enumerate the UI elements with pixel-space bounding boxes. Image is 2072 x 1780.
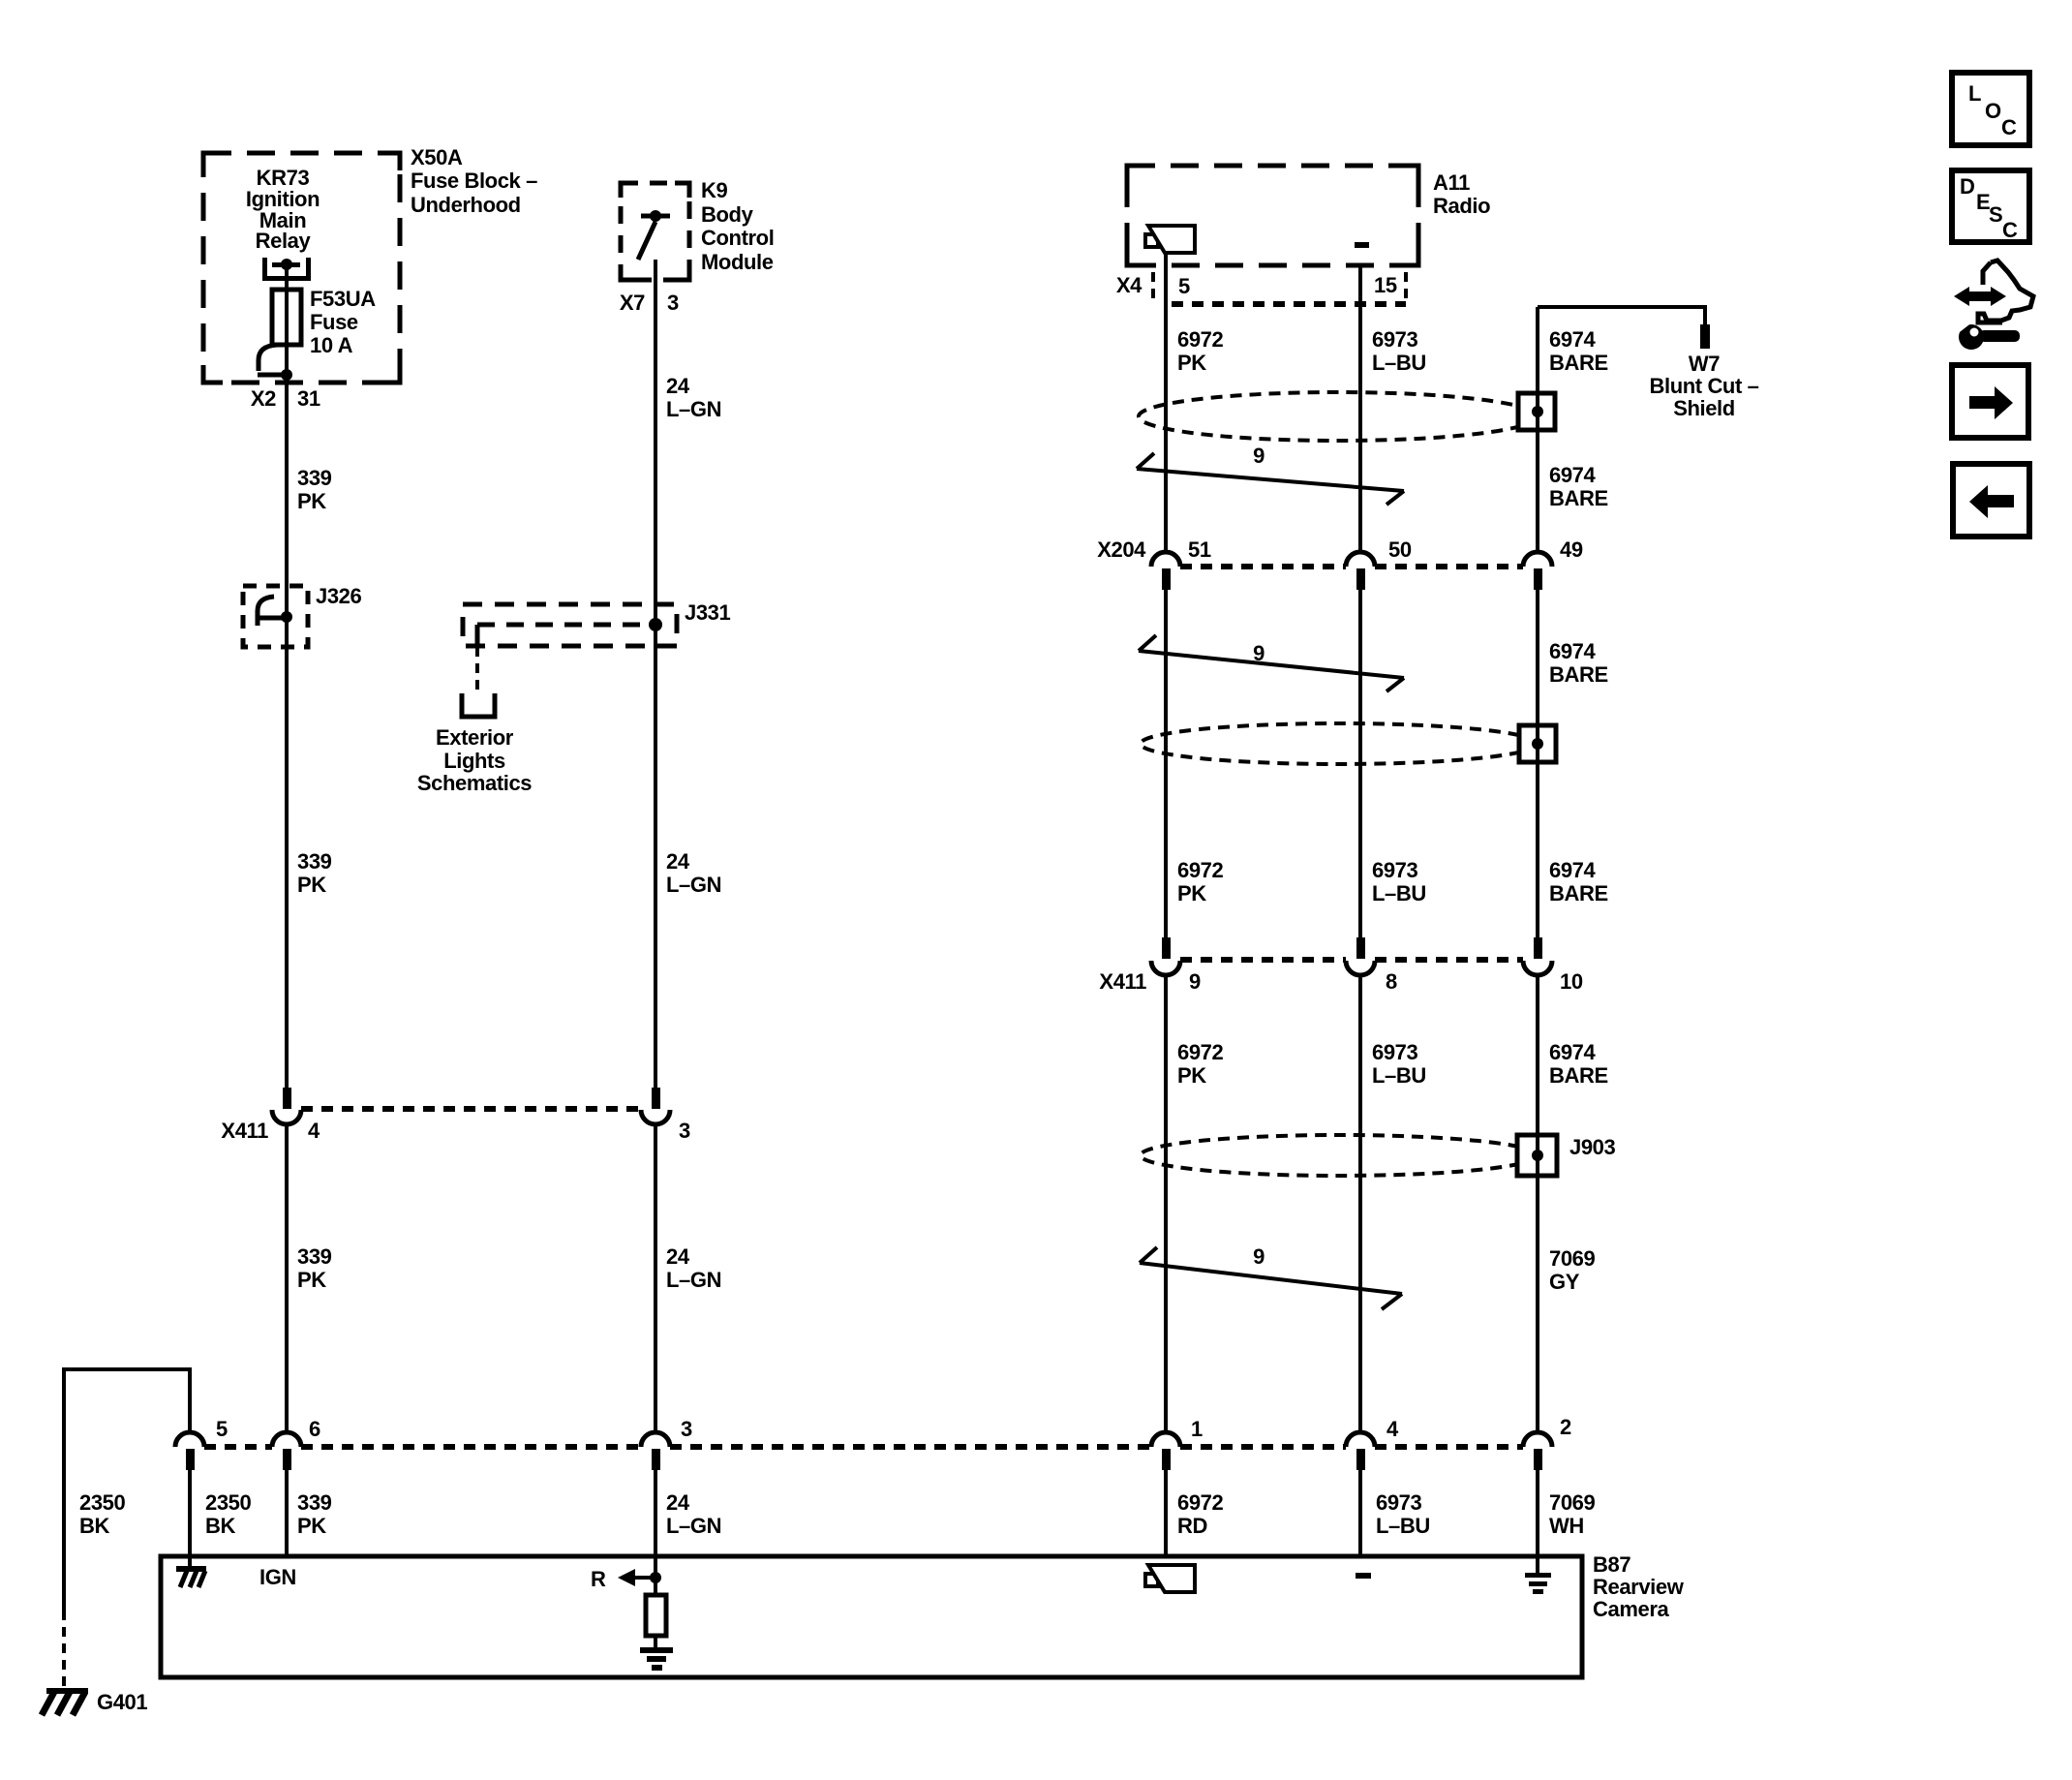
connector X411 pin 9 arc: [1151, 961, 1180, 975]
wire 6974 shield segment 2: [1536, 590, 1539, 937]
svg-text:PK: PK: [297, 489, 326, 513]
svg-text:X411: X411: [221, 1119, 268, 1143]
connector X4 row dashed line: [1153, 272, 1406, 304]
svg-text:L–GN: L–GN: [666, 1514, 721, 1538]
svg-text:5: 5: [216, 1417, 228, 1441]
svg-text:Fuse: Fuse: [310, 310, 358, 334]
label 339 PK bottom: [297, 1490, 332, 1538]
splice J331 inner box: [477, 625, 649, 645]
svg-text:6: 6: [309, 1417, 320, 1441]
shield ellipse 1: [1139, 392, 1538, 441]
svg-text:51: 51: [1188, 537, 1211, 562]
svg-text:A11: A11: [1433, 170, 1470, 195]
svg-text:339: 339: [297, 1490, 332, 1515]
connector bottom pin 5 arc: [175, 1432, 204, 1447]
svg-text:24: 24: [666, 1244, 690, 1269]
label 24 L-GN bottom: [666, 1490, 721, 1538]
wire 339 PK segment upper: [285, 375, 289, 1088]
fuse block X50A box: [203, 153, 400, 383]
icon arrow right box: [1952, 365, 2028, 438]
label 6973 L-BU bottom: [1376, 1490, 1430, 1538]
wire 6973 segment 3: [1358, 974, 1362, 1432]
svg-text:BARE: BARE: [1549, 1063, 1608, 1088]
pin X4 5 15 labels: [1116, 273, 1397, 298]
svg-text:Body: Body: [701, 202, 754, 227]
label 6973 L-BU first: [1372, 327, 1426, 375]
svg-text:B87: B87: [1593, 1552, 1630, 1577]
svg-text:BARE: BARE: [1549, 662, 1608, 687]
connector X411 pin 4 tick: [283, 1088, 291, 1109]
svg-text:9: 9: [1253, 1244, 1265, 1269]
svg-text:K9: K9: [701, 178, 727, 202]
svg-text:X4: X4: [1116, 273, 1143, 297]
svg-text:24: 24: [666, 1490, 690, 1515]
svg-text:BARE: BARE: [1549, 881, 1608, 905]
svg-text:24: 24: [666, 849, 690, 874]
connector X204 pin 51 arc: [1151, 552, 1180, 567]
shield connector box 2: [1519, 725, 1556, 762]
minus terminal in radio: [1355, 242, 1369, 248]
svg-text:WH: WH: [1549, 1514, 1584, 1538]
connector bottom pin 1 arc: [1151, 1432, 1180, 1447]
icon repair harness outline: [1978, 261, 2033, 322]
wire 339 PK segment lower: [285, 1470, 289, 1556]
svg-text:PK: PK: [1177, 881, 1206, 905]
label 2350 BK left: [79, 1490, 126, 1538]
connector X411 pin 8 tick: [1356, 937, 1365, 959]
svg-text:49: 49: [1560, 537, 1583, 562]
svg-text:IGN: IGN: [259, 1565, 296, 1589]
body control module K9 box: [621, 183, 689, 280]
svg-text:BARE: BARE: [1549, 486, 1608, 510]
label KR73 Ignition Main Relay: [246, 166, 320, 253]
svg-text:50: 50: [1388, 537, 1412, 562]
svg-text:6972: 6972: [1177, 858, 1224, 882]
wire relay to fuse: [285, 268, 289, 372]
switch K9 output driver: [638, 216, 670, 260]
splice J331 outer box: [463, 604, 677, 646]
connector X411 right row dashed line: [1180, 957, 1523, 963]
svg-text:6973: 6973: [1376, 1490, 1422, 1515]
wire 2350 BK dashed to ground: [62, 1611, 66, 1687]
label 24 L-GN third: [666, 1244, 721, 1292]
pin X7 3 labels: [620, 291, 679, 315]
connector X204 row dashed line: [1180, 564, 1523, 569]
svg-text:6973: 6973: [1372, 327, 1418, 352]
wire 6974 shield segment 3: [1536, 974, 1539, 1432]
connector bottom pin 3 arc: [641, 1432, 670, 1447]
wire 6972 segment 2: [1164, 590, 1168, 937]
svg-text:6972: 6972: [1177, 1490, 1224, 1515]
icon LOC box: [1952, 73, 2029, 145]
svg-text:RD: RD: [1177, 1514, 1207, 1538]
svg-text:Exterior: Exterior: [436, 725, 514, 750]
svg-text:Blunt Cut –: Blunt Cut –: [1650, 374, 1759, 398]
label 6972 RD bottom: [1177, 1490, 1224, 1538]
svg-text:X2: X2: [251, 386, 276, 411]
ground symbol under resistor: [640, 1647, 673, 1671]
splice J903 box: [1517, 1135, 1557, 1176]
icon wrench: [1953, 313, 2020, 350]
label A11 Radio: [1433, 170, 1490, 218]
connector bottom pin 2 arc: [1523, 1432, 1552, 1447]
connector X204 pin 50 tick: [1356, 568, 1365, 590]
svg-text:6974: 6974: [1549, 463, 1597, 487]
svg-text:9: 9: [1189, 969, 1201, 994]
label 6974 BARE second: [1549, 463, 1608, 510]
wire 2350 BK lower segment: [188, 1470, 192, 1556]
connector bottom pin 6 tick: [283, 1449, 291, 1470]
fuse block box corners: [203, 153, 400, 383]
label 6974 BARE third: [1549, 639, 1608, 687]
svg-text:PK: PK: [1177, 351, 1206, 375]
wire 6973 segment 4: [1358, 1470, 1362, 1556]
svg-text:8: 8: [1386, 969, 1397, 994]
svg-text:PK: PK: [297, 1514, 326, 1538]
label 6974 BARE fourth: [1549, 858, 1608, 905]
svg-text:Schematics: Schematics: [417, 771, 532, 795]
svg-text:X411: X411: [1099, 969, 1146, 994]
twisted pair symbol 2: [1139, 635, 1404, 691]
svg-text:J326: J326: [316, 584, 362, 608]
svg-text:L–BU: L–BU: [1372, 881, 1426, 905]
node shield box 1 dot: [1532, 406, 1543, 417]
connector X204 pin 49 tick: [1534, 568, 1542, 590]
label X411 and pins 9 8 10: [1099, 969, 1582, 994]
resistor camera pull-down: [646, 1595, 666, 1636]
connector X411 pin 3 arc: [641, 1110, 670, 1124]
svg-text:Radio: Radio: [1433, 194, 1490, 218]
wire 24 L-GN segment mid: [654, 1124, 657, 1432]
svg-text:2350: 2350: [79, 1490, 126, 1515]
svg-text:X7: X7: [620, 291, 645, 315]
svg-text:6973: 6973: [1372, 1040, 1418, 1064]
svg-text:L–GN: L–GN: [666, 397, 721, 421]
shield ellipse 2: [1141, 723, 1538, 764]
svg-text:6974: 6974: [1549, 1040, 1597, 1064]
connector bottom pin 5 tick: [186, 1449, 195, 1470]
svg-text:Module: Module: [701, 250, 774, 274]
connector X411 pin 8 arc: [1346, 961, 1375, 975]
svg-text:BARE: BARE: [1549, 351, 1608, 375]
wire 6972 segment 1: [1164, 254, 1168, 552]
connector X204 pin 51 tick: [1162, 568, 1171, 590]
shield connector box 1: [1518, 393, 1555, 430]
svg-text:X204: X204: [1097, 537, 1146, 562]
label 6972 PK third: [1177, 1040, 1224, 1088]
wire shield drain to W7: [1538, 307, 1705, 325]
svg-text:BK: BK: [79, 1514, 109, 1538]
svg-text:Control: Control: [701, 226, 774, 250]
node J326 dot: [281, 611, 292, 623]
svg-text:4: 4: [308, 1119, 320, 1143]
wire camera internal to resistor: [654, 1556, 657, 1649]
label 6973 L-BU third: [1372, 1040, 1426, 1088]
twisted pair symbol 1: [1137, 453, 1404, 505]
wire 6972 segment 3: [1164, 974, 1168, 1432]
label K9 Body Control Module: [701, 178, 774, 274]
chassis ground inside camera: [176, 1556, 206, 1587]
connector X411 mid row dashed line: [301, 1106, 641, 1112]
node K9 switch dot: [650, 210, 661, 222]
svg-text:R: R: [591, 1567, 606, 1591]
svg-text:G401: G401: [97, 1690, 147, 1714]
label 7069 GY: [1549, 1246, 1596, 1294]
blunt cut W7 stub: [1700, 324, 1710, 349]
svg-text:10 A: 10 A: [310, 333, 353, 357]
label 339 PK second: [297, 849, 332, 897]
label F53UA Fuse 10 A: [310, 287, 376, 357]
svg-text:F53UA: F53UA: [310, 287, 376, 311]
svg-text:3: 3: [681, 1417, 692, 1441]
svg-text:PK: PK: [297, 1268, 326, 1292]
connector bottom row dashed line: [204, 1444, 1523, 1450]
svg-text:6974: 6974: [1549, 858, 1597, 882]
connector X411 pin 9 tick: [1162, 937, 1171, 959]
relay KR73 contact symbol: [262, 258, 311, 281]
wire 24 L-GN segment lower: [654, 1470, 657, 1556]
reverse signal arrow: [618, 1569, 655, 1586]
off-page bracket exterior lights: [462, 693, 495, 717]
wire 6974 shield segment 1: [1536, 307, 1539, 552]
label X204 and pins 51 50 49: [1097, 537, 1583, 562]
node shield box 2 dot: [1532, 738, 1543, 750]
svg-text:J331: J331: [685, 600, 731, 625]
node J331 dot: [649, 618, 662, 631]
svg-text:6974: 6974: [1549, 327, 1597, 352]
wire J331 branch dashed: [475, 647, 479, 693]
connector X411 pin 10 tick: [1534, 937, 1542, 959]
svg-text:2350: 2350: [205, 1490, 252, 1515]
node relay output dot: [281, 259, 292, 270]
minus terminal in B87: [1356, 1573, 1371, 1579]
wire 24 L-GN segment upper: [654, 260, 657, 1088]
label 6972 PK first: [1177, 327, 1224, 375]
svg-text:10: 10: [1560, 969, 1583, 994]
svg-text:J903: J903: [1569, 1135, 1616, 1159]
wire 6973 segment 1: [1358, 265, 1362, 552]
svg-text:3: 3: [679, 1119, 690, 1143]
svg-text:X50A: X50A: [411, 145, 463, 169]
connector bottom pin 3 tick: [652, 1449, 660, 1470]
svg-text:Underhood: Underhood: [411, 193, 521, 217]
label Exterior Lights Schematics: [417, 725, 532, 795]
wire 6973 segment 2: [1358, 590, 1362, 937]
label 6974 BARE fifth: [1549, 1040, 1608, 1088]
shield ellipse 3: [1141, 1135, 1538, 1176]
svg-text:Camera: Camera: [1593, 1597, 1669, 1621]
svg-text:9: 9: [1253, 444, 1265, 468]
label 2350 BK right: [205, 1490, 252, 1538]
connector bottom pin 1 tick: [1162, 1449, 1171, 1470]
node J903 dot: [1532, 1150, 1543, 1161]
fuse F53UA symbol: [272, 290, 301, 345]
label X411 mid and pins 4 3: [221, 1119, 690, 1143]
label 6972 PK second: [1177, 858, 1224, 905]
svg-text:9: 9: [1253, 641, 1265, 665]
label 6974 BARE first: [1549, 327, 1608, 375]
twisted pair symbol 3: [1140, 1247, 1402, 1309]
svg-text:24: 24: [666, 374, 690, 398]
fuse block terminal hook: [258, 345, 284, 375]
bcm box corners: [621, 183, 689, 280]
connector X411 pin 3 tick: [652, 1088, 660, 1109]
splice J326 box: [243, 586, 308, 647]
svg-text:GY: GY: [1549, 1270, 1580, 1294]
camera icon in B87: [1145, 1565, 1195, 1592]
svg-text:BK: BK: [205, 1514, 235, 1538]
svg-text:4: 4: [1386, 1417, 1399, 1441]
label 24 L-GN first: [666, 374, 721, 421]
icon arrow left box: [1953, 464, 2029, 537]
wire 6972 segment 4: [1164, 1470, 1168, 1556]
svg-text:D: D: [1960, 174, 1975, 199]
connector bottom pin 4 tick: [1356, 1449, 1365, 1470]
pin X2 31 labels: [251, 386, 320, 411]
svg-text:2: 2: [1560, 1415, 1571, 1439]
svg-text:Rearview: Rearview: [1593, 1575, 1685, 1599]
connector bottom pin 6 arc: [272, 1432, 301, 1447]
radio box corners: [1127, 166, 1418, 265]
svg-text:31: 31: [297, 386, 320, 411]
svg-text:L–BU: L–BU: [1372, 1063, 1426, 1088]
svg-text:PK: PK: [297, 873, 326, 897]
label 339 PK first: [297, 466, 332, 513]
labels bottom pins 5 6 3 1 4 2: [216, 1415, 1571, 1441]
svg-text:339: 339: [297, 849, 332, 874]
label W7 Blunt Cut - Shield: [1650, 352, 1759, 420]
svg-text:6972: 6972: [1177, 1040, 1224, 1064]
svg-text:L–GN: L–GN: [666, 873, 721, 897]
label 7069 WH bottom: [1549, 1490, 1596, 1538]
node R junction dot: [650, 1572, 661, 1583]
svg-text:L–GN: L–GN: [666, 1268, 721, 1292]
svg-text:W7: W7: [1689, 352, 1720, 376]
icon DESC box: [1952, 170, 2029, 242]
connector X411 pin 10 arc: [1523, 961, 1552, 975]
connector bottom pin 2 tick: [1534, 1449, 1542, 1470]
label X50A Fuse Block - Underhood: [411, 145, 537, 217]
svg-text:339: 339: [297, 466, 332, 490]
svg-text:7069: 7069: [1549, 1490, 1596, 1515]
svg-text:6973: 6973: [1372, 858, 1418, 882]
svg-text:L–BU: L–BU: [1372, 351, 1426, 375]
svg-text:C: C: [2002, 218, 2018, 242]
label 24 L-GN second: [666, 849, 721, 897]
svg-text:C: C: [2001, 115, 2017, 139]
label B87 Rearview Camera: [1593, 1552, 1685, 1621]
svg-text:15: 15: [1374, 273, 1397, 297]
radio A11 box: [1127, 166, 1418, 265]
ground G401 symbol: [42, 1688, 88, 1715]
svg-text:3: 3: [667, 291, 679, 315]
svg-text:L–BU: L–BU: [1376, 1514, 1430, 1538]
svg-text:7069: 7069: [1549, 1246, 1596, 1271]
connector X204 pin 50 arc: [1346, 552, 1375, 567]
wire 339 PK segment mid: [285, 1124, 289, 1432]
label 339 PK third: [297, 1244, 332, 1292]
label 6973 L-BU second: [1372, 858, 1426, 905]
svg-text:PK: PK: [1177, 1063, 1206, 1088]
node fuse output dot: [281, 369, 292, 381]
ground symbol right in B87: [1525, 1556, 1551, 1594]
svg-text:6974: 6974: [1549, 639, 1597, 663]
svg-text:S: S: [1989, 202, 2002, 227]
wire 2350 BK top horizontal: [64, 1369, 190, 1611]
connector X411 pin 4 arc: [272, 1110, 301, 1124]
svg-text:5: 5: [1178, 274, 1190, 298]
svg-text:6972: 6972: [1177, 327, 1224, 352]
svg-text:Relay: Relay: [256, 229, 312, 253]
wire 7069 WH segment: [1536, 1470, 1539, 1556]
svg-text:O: O: [1985, 99, 2001, 123]
camera display icon in radio: [1145, 226, 1195, 253]
svg-text:339: 339: [297, 1244, 332, 1269]
connector bottom pin 4 arc: [1346, 1432, 1375, 1447]
svg-text:Fuse Block –: Fuse Block –: [411, 169, 537, 193]
svg-text:1: 1: [1191, 1417, 1203, 1441]
icon repair harness arrow: [1954, 287, 2006, 306]
svg-text:Lights: Lights: [443, 749, 505, 773]
splice J326 hook: [258, 597, 283, 626]
rearview camera B87 box: [161, 1556, 1582, 1677]
connector X204 pin 49 arc: [1523, 552, 1552, 567]
svg-text:L: L: [1968, 81, 1981, 106]
svg-text:Shield: Shield: [1673, 396, 1735, 420]
